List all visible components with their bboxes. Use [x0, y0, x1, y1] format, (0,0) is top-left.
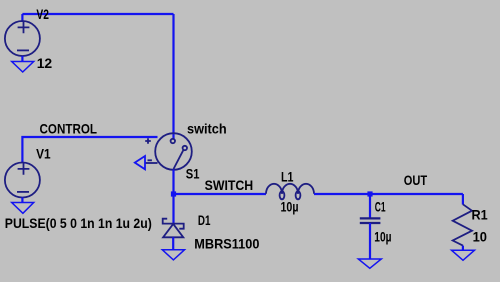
- svg-text:SWITCH: SWITCH: [205, 177, 254, 193]
- wire L1 to OUT node and R1 column: [314, 193, 463, 195]
- wire V1 bottom stub: [21, 198, 23, 203]
- capacitor C1: [360, 218, 381, 223]
- svg-text:switch: switch: [187, 121, 227, 137]
- inductor L1: [266, 184, 314, 199]
- ground under D1: [162, 250, 184, 260]
- wire V2 bottom stub: [21, 56, 23, 62]
- wire D1 to ground: [172, 237, 174, 250]
- diode D1: [163, 219, 184, 238]
- ground under R1: [452, 250, 475, 260]
- svg-text:V2: V2: [36, 6, 49, 22]
- svg-text:MBRS1100: MBRS1100: [194, 236, 259, 252]
- wire down from top rail to switch S1 top: [172, 14, 174, 139]
- svg-text:S1: S1: [186, 166, 200, 182]
- svg-text:10µ: 10µ: [281, 199, 299, 215]
- resistor R1: [453, 204, 472, 245]
- svg-text:10µ: 10µ: [374, 229, 391, 245]
- voltage source V2: [5, 21, 40, 56]
- switch S1 control arrow: [135, 156, 145, 169]
- wire C1 to ground: [369, 223, 371, 259]
- svg-text:C1: C1: [375, 199, 386, 215]
- svg-text:D1: D1: [198, 212, 211, 228]
- wire R1 to ground: [462, 246, 464, 251]
- wire switch node to L1: [174, 193, 267, 195]
- svg-text:L1: L1: [281, 169, 294, 185]
- wire down to R1: [462, 194, 464, 205]
- svg-text:12: 12: [37, 55, 53, 71]
- wire V1 top stub up and CONTROL rail to switch: [22, 137, 157, 162]
- svg-text:10: 10: [473, 229, 488, 245]
- svg-text:R1: R1: [472, 207, 488, 223]
- wire V2 top stub to top rail: [21, 14, 23, 22]
- svg-text:OUT: OUT: [404, 172, 428, 188]
- svg-text:PULSE(0 5 0 1n 1n 1u 2u): PULSE(0 5 0 1n 1n 1u 2u): [5, 215, 152, 231]
- ground under V1: [12, 203, 34, 214]
- wire top rail V2 to switch column: [22, 13, 173, 15]
- ground under V2: [12, 62, 34, 73]
- wire switch bottom to diode D1: [172, 170, 174, 224]
- svg-text:CONTROL: CONTROL: [40, 121, 98, 137]
- voltage source V1: [5, 163, 40, 198]
- switch S1: [145, 133, 192, 170]
- junction switch node: [171, 191, 176, 196]
- svg-text:V1: V1: [36, 146, 51, 162]
- ground under C1: [358, 259, 381, 268]
- wire OUT node down to C1: [369, 194, 371, 218]
- junction OUT node: [367, 191, 372, 196]
